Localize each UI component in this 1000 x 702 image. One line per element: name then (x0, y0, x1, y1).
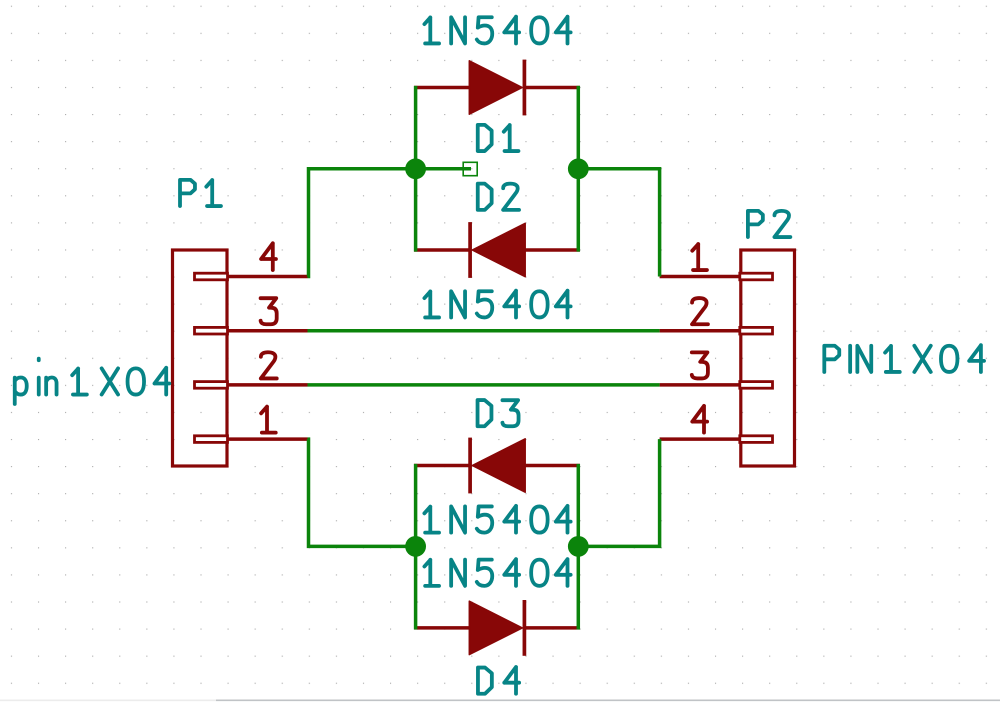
canvas edge line (0, 699, 216, 701)
P1 value label pin1X04 (15, 359, 170, 404)
wire node D vertical D3 anode to D4 cathode (577, 464, 581, 630)
P2 pin number 1 (692, 244, 707, 270)
diode D1 (414, 60, 580, 116)
P2 pin lead row 2 (660, 329, 741, 333)
P2 pin number 2 (692, 298, 708, 324)
wire P1.4 up to node A (308, 169, 416, 277)
P2 pin number 3 (692, 352, 708, 378)
P1 pin lead row 4 (227, 275, 308, 279)
P1 pin number 2 (261, 352, 277, 378)
diode D2 (414, 222, 580, 278)
P2 reference label (748, 211, 790, 237)
junction node C (405, 536, 426, 557)
wire node B vertical D1 cathode to D2 anode (577, 86, 581, 252)
junction node A (405, 158, 426, 179)
P2 pin lead row 3 (660, 383, 741, 387)
junction node D (568, 536, 589, 557)
D4 reference label (478, 667, 519, 694)
P1 pin lead row 1 (227, 437, 308, 441)
P2 value label PIN1X04 (824, 345, 984, 372)
diode D4 (414, 600, 580, 656)
junction node B (568, 158, 589, 179)
wire node D to P2.4 (578, 439, 659, 546)
P2 pin lead row 4 (660, 437, 741, 441)
P1 pin lead row 3 (227, 329, 308, 333)
wire node A vertical D1 anode to D2 cathode (414, 86, 418, 252)
D4 value label 1N5404 (424, 559, 570, 586)
P2 pin number 4 (692, 406, 707, 433)
wire stub node A to unconnected end (416, 167, 471, 171)
connector P1 (173, 250, 228, 466)
D3 reference label (478, 400, 519, 426)
wire node C vertical D3 cathode to D4 anode (414, 464, 418, 630)
P1 pin lead row 2 (227, 383, 308, 387)
P1 pin number 1 (261, 407, 276, 433)
diode D3 (414, 438, 580, 494)
P1 reference label (180, 180, 221, 206)
D1 value label 1N5404 (424, 17, 570, 44)
P1 pin number 3 (261, 298, 277, 324)
D3 value label 1N5404 (424, 506, 570, 533)
D2 value label 1N5404 (424, 291, 570, 318)
connector P2 (740, 250, 795, 466)
D2 reference label (478, 184, 519, 210)
wire P1.1 down to node C (308, 439, 416, 546)
P2 pin lead row 1 (660, 275, 741, 279)
wire node B to P2.1 (578, 169, 659, 277)
wire P1.2 to P2.3 (308, 383, 660, 387)
P1 pin number 4 (261, 243, 276, 270)
unconnected wire end marker (463, 162, 477, 175)
wire P1.3 to P2.2 (308, 329, 660, 333)
D1 reference label (478, 125, 519, 151)
